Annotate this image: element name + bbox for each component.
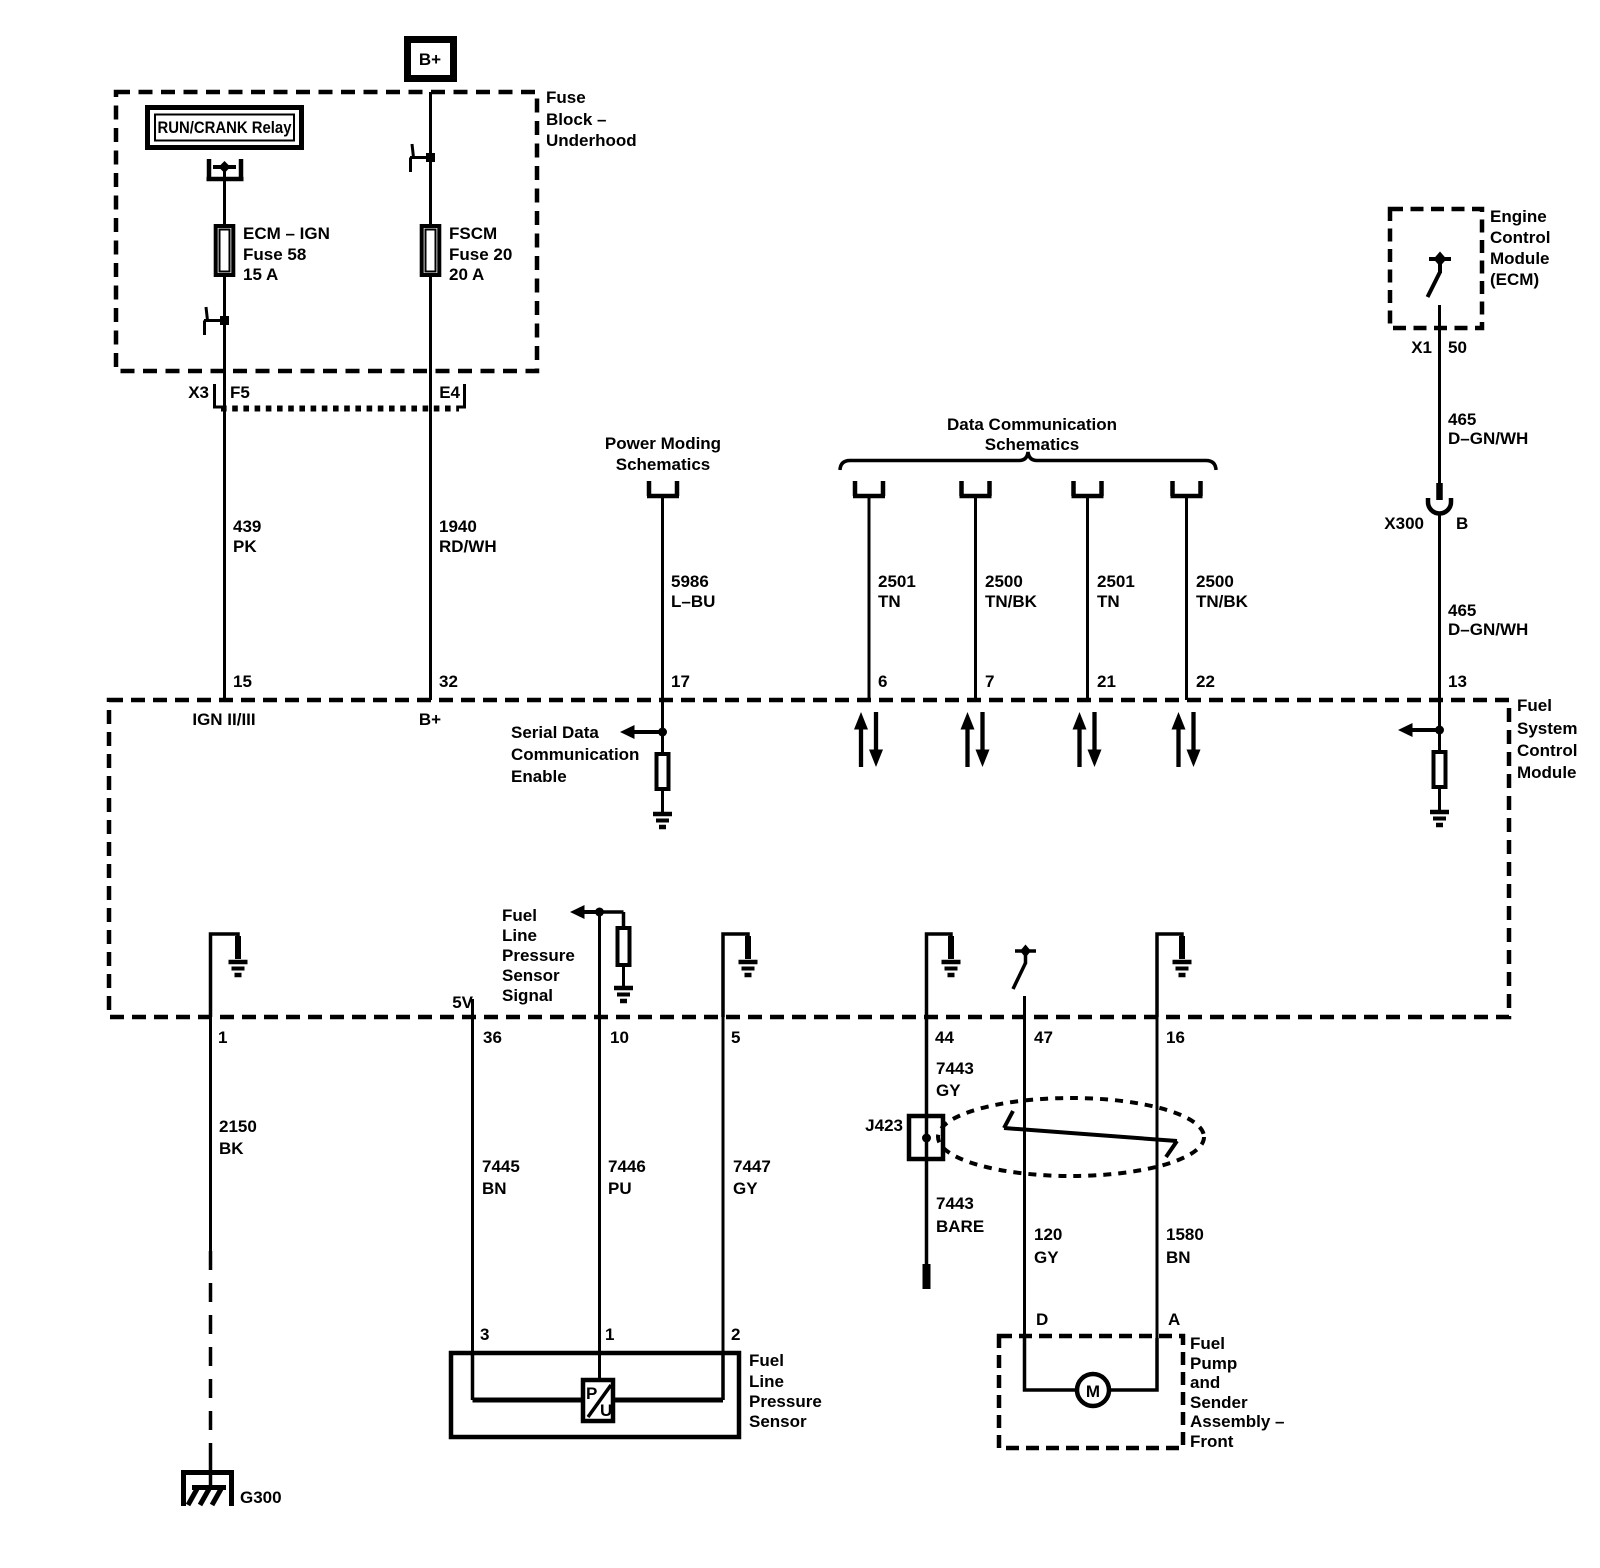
svg-text:BN: BN — [482, 1179, 507, 1198]
wire pin 13 to resistor — [1438, 700, 1441, 752]
svg-text:2501: 2501 — [878, 572, 916, 591]
svg-text:Module: Module — [1517, 763, 1577, 782]
svg-text:13: 13 — [1448, 672, 1467, 691]
svg-text:A: A — [1168, 1310, 1180, 1329]
label Data Communication Schematics — [947, 415, 1117, 454]
ground under R1 — [653, 814, 672, 827]
svg-text:Enable: Enable — [511, 767, 567, 786]
label FSCM Fuse 20 20 A — [449, 224, 512, 284]
svg-text:Pump: Pump — [1190, 1354, 1237, 1373]
off-page connector data 1 — [853, 481, 885, 496]
splice J423 — [909, 1116, 943, 1159]
wire 2501 to pin 21 — [1086, 496, 1089, 700]
svg-text:TN/BK: TN/BK — [985, 592, 1038, 611]
svg-text:TN/BK: TN/BK — [1196, 592, 1249, 611]
ground G300 — [184, 1462, 232, 1506]
Fuel Pump and Sender Assembly dashed box — [999, 1336, 1183, 1448]
off-page connector data 4 — [1171, 481, 1203, 496]
ground pin 16 — [1173, 962, 1192, 975]
off-page connector data 3 — [1072, 481, 1104, 496]
svg-text:RD/WH: RD/WH — [439, 537, 497, 556]
svg-text:Underhood: Underhood — [546, 131, 637, 150]
svg-text:Control: Control — [1517, 741, 1577, 760]
svg-text:Fuel: Fuel — [1517, 696, 1552, 715]
wire 2500 to pin 7 — [974, 496, 977, 700]
svg-text:Power Moding: Power Moding — [605, 434, 721, 453]
svg-text:3: 3 — [480, 1325, 489, 1344]
svg-text:X3: X3 — [188, 383, 209, 402]
brace over data wires — [840, 452, 1216, 470]
svg-text:7447: 7447 — [733, 1157, 771, 1176]
svg-text:B+: B+ — [419, 50, 441, 69]
pump internal wires — [1025, 1338, 1158, 1390]
arrow pair pin 6 — [854, 712, 883, 767]
pin 47 internal switch symbol — [1013, 945, 1036, 1018]
svg-text:1580: 1580 — [1166, 1225, 1204, 1244]
svg-text:1: 1 — [605, 1325, 614, 1344]
wire relay to fuse 58 — [223, 170, 226, 228]
svg-text:Module: Module — [1490, 249, 1550, 268]
ground pin 44 — [942, 962, 961, 975]
svg-text:Line: Line — [749, 1372, 784, 1391]
ground under R3 — [614, 988, 633, 1001]
svg-text:120: 120 — [1034, 1225, 1062, 1244]
wire fuse 20 to pin 32 — [429, 277, 432, 700]
svg-text:L–BU: L–BU — [671, 592, 715, 611]
svg-text:2: 2 — [731, 1325, 740, 1344]
svg-text:B+: B+ — [419, 710, 441, 729]
svg-text:D–GN/WH: D–GN/WH — [1448, 620, 1528, 639]
connector strip dotted line — [221, 406, 459, 412]
svg-text:44: 44 — [935, 1028, 954, 1047]
svg-text:10: 10 — [610, 1028, 629, 1047]
svg-text:J423: J423 — [865, 1116, 903, 1135]
svg-text:2501: 2501 — [1097, 572, 1135, 591]
pin 44 internal ground elbow — [927, 934, 952, 1017]
svg-text:Fuse 58: Fuse 58 — [243, 245, 306, 264]
fuse F58 ECM-IGN — [216, 226, 234, 275]
node junction pin 17 — [620, 725, 667, 739]
svg-text:1940: 1940 — [439, 517, 477, 536]
Fuel Line Pressure Sensor box — [451, 1353, 739, 1437]
svg-text:6: 6 — [878, 672, 887, 691]
svg-text:and: and — [1190, 1373, 1220, 1392]
svg-text:Engine: Engine — [1490, 207, 1547, 226]
svg-text:D–GN/WH: D–GN/WH — [1448, 429, 1528, 448]
svg-text:Fuel: Fuel — [749, 1351, 784, 1370]
svg-text:GY: GY — [733, 1179, 758, 1198]
svg-text:BARE: BARE — [936, 1217, 984, 1236]
svg-text:B: B — [1456, 514, 1468, 533]
svg-text:7443: 7443 — [936, 1059, 974, 1078]
pin 1 internal ground elbow — [211, 934, 239, 1017]
svg-text:G300: G300 — [240, 1488, 282, 1507]
svg-text:439: 439 — [233, 517, 261, 536]
svg-text:Fuel: Fuel — [502, 906, 537, 925]
svg-text:Sensor: Sensor — [749, 1412, 807, 1431]
svg-text:Fuel: Fuel — [1190, 1334, 1225, 1353]
label Fuel System Control Module — [1517, 696, 1577, 782]
wire X300 to pin 13 — [1438, 514, 1441, 700]
sensor P/U element — [583, 1380, 613, 1421]
label ECM - IGN Fuse 58 15 A — [243, 224, 330, 284]
svg-text:U: U — [600, 1401, 612, 1420]
svg-text:D: D — [1036, 1310, 1048, 1329]
svg-text:System: System — [1517, 719, 1577, 738]
label wire 7443 BARE — [936, 1194, 984, 1236]
svg-text:2500: 2500 — [985, 572, 1023, 591]
svg-text:7445: 7445 — [482, 1157, 520, 1176]
svg-text:E4: E4 — [439, 383, 460, 402]
svg-text:IGN II/III: IGN II/III — [192, 710, 255, 729]
wire ECM pin 50 — [1438, 305, 1441, 484]
svg-text:36: 36 — [483, 1028, 502, 1047]
relay contact switch — [207, 159, 244, 181]
svg-text:Fuse 20: Fuse 20 — [449, 245, 512, 264]
sensor internal wires — [473, 1353, 724, 1400]
svg-text:BK: BK — [219, 1139, 244, 1158]
svg-text:15 A: 15 A — [243, 265, 278, 284]
svg-text:Block –: Block – — [546, 110, 606, 129]
label wire 439 PK — [233, 517, 261, 556]
label wire 2501 TN b — [1097, 572, 1135, 611]
label wire 7447 GY — [733, 1157, 771, 1198]
label Fuel Line Pressure Sensor Signal — [502, 906, 575, 1005]
ground under R2 — [1430, 812, 1449, 825]
svg-text:50: 50 — [1448, 338, 1467, 357]
svg-text:1: 1 — [218, 1028, 227, 1047]
module U2 Engine Control Module dashed box — [1390, 209, 1482, 328]
svg-text:M: M — [1086, 1382, 1100, 1401]
label wire 465 D-GN/WH lower — [1448, 601, 1528, 639]
off-page connector Power Moding — [647, 481, 679, 496]
module U3 Fuel System Control Module dashed box — [109, 700, 1509, 1017]
B+ power symbol — [408, 40, 454, 79]
svg-text:2150: 2150 — [219, 1117, 257, 1136]
splice pointer line — [1004, 1111, 1177, 1157]
node junction pin 13 — [1398, 723, 1444, 737]
svg-text:ECM – IGN: ECM – IGN — [243, 224, 330, 243]
resistor R2 — [1434, 752, 1446, 787]
off-page connector data 2 — [960, 481, 992, 496]
svg-text:Pressure: Pressure — [502, 946, 575, 965]
svg-text:PU: PU — [608, 1179, 632, 1198]
label wire 7443 GY — [936, 1059, 974, 1100]
in-line connector X300 pin B — [1428, 483, 1451, 514]
wire 7447 GY pin 5 to sensor pin 2 — [722, 1017, 725, 1353]
wire 7443 GY pin 44 down — [925, 1017, 929, 1265]
svg-text:20 A: 20 A — [449, 265, 484, 284]
wire 5986 to pin 17 — [661, 496, 664, 700]
svg-text:16: 16 — [1166, 1028, 1185, 1047]
svg-text:Line: Line — [502, 926, 537, 945]
svg-text:5: 5 — [731, 1028, 740, 1047]
label Fuel Pump and Sender Assembly - Front — [1190, 1334, 1285, 1451]
svg-text:2500: 2500 — [1196, 572, 1234, 591]
wire 5V stub pin 36 — [471, 999, 474, 1017]
serial data arrow and label — [511, 723, 639, 786]
resistor R3 — [618, 928, 630, 965]
label wire 1940 RD/WH — [439, 517, 497, 556]
svg-text:Sensor: Sensor — [502, 966, 560, 985]
wire pin 17 to resistor — [661, 700, 664, 754]
svg-text:Front: Front — [1190, 1432, 1234, 1451]
svg-text:17: 17 — [671, 672, 690, 691]
wire resistor R2 to ground — [1438, 787, 1441, 810]
svg-text:GY: GY — [936, 1081, 961, 1100]
svg-text:5V: 5V — [452, 993, 473, 1012]
wire B+ to fuse 20 — [429, 92, 432, 228]
connector X3 bracket — [188, 383, 250, 407]
svg-text:Schematics: Schematics — [985, 435, 1080, 454]
label wire 120 GY — [1034, 1225, 1062, 1267]
connector E4 bracket — [439, 383, 464, 407]
wire 2501 to pin 6 — [868, 496, 871, 700]
fuse F20 FSCM — [422, 226, 440, 275]
svg-text:PK: PK — [233, 537, 257, 556]
svg-text:15: 15 — [233, 672, 252, 691]
svg-text:F5: F5 — [230, 383, 250, 402]
svg-text:Data Communication: Data Communication — [947, 415, 1117, 434]
label Power Moding Schematics — [605, 434, 721, 474]
svg-text:47: 47 — [1034, 1028, 1053, 1047]
wire 2500 to pin 22 — [1185, 496, 1188, 700]
ground pin 1 — [229, 962, 248, 975]
node junction pin 10 — [570, 905, 624, 928]
arrow pair pin 7 — [961, 712, 990, 767]
svg-text:21: 21 — [1097, 672, 1116, 691]
svg-text:Assembly –: Assembly – — [1190, 1412, 1285, 1431]
label wire 1580 BN — [1166, 1225, 1204, 1267]
arrow pair pin 22 — [1172, 712, 1201, 767]
label wire 2501 TN a — [878, 572, 916, 611]
svg-text:5986: 5986 — [671, 572, 709, 591]
pin 5 internal ground elbow — [723, 934, 748, 1017]
resistor R1 — [657, 754, 669, 789]
label wire 7446 PU — [608, 1157, 646, 1198]
wire 7445 BN pin 36 to sensor pin 3 — [471, 1017, 474, 1353]
svg-text:Schematics: Schematics — [616, 455, 711, 474]
svg-text:Communication: Communication — [511, 745, 639, 764]
svg-text:32: 32 — [439, 672, 458, 691]
clip terminal on wire 15 — [204, 307, 229, 335]
wire resistor R3 to ground — [622, 965, 625, 986]
wire fuse 58 to pin 15 — [223, 277, 226, 700]
label wire 2500 TN/BK b — [1196, 572, 1249, 611]
svg-text:Signal: Signal — [502, 986, 553, 1005]
pin 16 internal ground elbow — [1157, 934, 1182, 1017]
connector label X1 50 — [1411, 338, 1467, 357]
Fuse Block - Underhood dashed box — [116, 92, 537, 371]
svg-text:X1: X1 — [1411, 338, 1432, 357]
label Engine Control Module (ECM) — [1490, 207, 1550, 289]
motor M fuel pump — [1077, 1374, 1109, 1406]
wire 2150 BK dashed — [209, 1251, 213, 1468]
clip terminal on wire 32 — [410, 144, 435, 172]
wire 1580 BN pin 16 to pump A — [1156, 1017, 1159, 1338]
relay K1 RUN/CRANK Relay — [148, 108, 302, 148]
svg-text:7443: 7443 — [936, 1194, 974, 1213]
svg-text:Control: Control — [1490, 228, 1550, 247]
wire resistor to ground — [661, 789, 664, 812]
wire 120 GY pin 47 to pump D — [1023, 1017, 1026, 1338]
label wire 465 D-GN/WH upper — [1448, 410, 1528, 448]
arrow pair pin 21 — [1073, 712, 1102, 767]
ECM driver symbol — [1428, 252, 1452, 298]
svg-text:465: 465 — [1448, 601, 1476, 620]
wire 2150 BK solid — [209, 1017, 212, 1251]
svg-text:Pressure: Pressure — [749, 1392, 822, 1411]
svg-text:7446: 7446 — [608, 1157, 646, 1176]
svg-text:BN: BN — [1166, 1248, 1191, 1267]
bare wire end stub — [923, 1264, 931, 1289]
svg-text:TN: TN — [1097, 592, 1120, 611]
label wire 2500 TN/BK a — [985, 572, 1038, 611]
svg-text:X300: X300 — [1384, 514, 1424, 533]
svg-text:465: 465 — [1448, 410, 1476, 429]
svg-text:Fuse: Fuse — [546, 88, 586, 107]
svg-text:P: P — [586, 1384, 597, 1403]
label Fuel Line Pressure Sensor — [749, 1351, 822, 1431]
label Fuse Block - Underhood — [546, 88, 637, 150]
ground pin 5 — [739, 962, 758, 975]
svg-text:FSCM: FSCM — [449, 224, 497, 243]
splice callout ellipse — [938, 1098, 1204, 1176]
svg-text:RUN/CRANK Relay: RUN/CRANK Relay — [158, 118, 292, 137]
svg-text:GY: GY — [1034, 1248, 1059, 1267]
svg-text:7: 7 — [985, 672, 994, 691]
label wire 7445 BN — [482, 1157, 520, 1198]
label wire 2150 BK — [219, 1117, 257, 1158]
svg-text:22: 22 — [1196, 672, 1215, 691]
svg-text:Sender: Sender — [1190, 1393, 1248, 1412]
svg-text:TN: TN — [878, 592, 901, 611]
label wire 5986 L-BU — [671, 572, 715, 611]
wire 7446 PU pin 10 to sensor pin 1 — [598, 912, 601, 1380]
svg-text:(ECM): (ECM) — [1490, 270, 1539, 289]
svg-text:Serial Data: Serial Data — [511, 723, 599, 742]
